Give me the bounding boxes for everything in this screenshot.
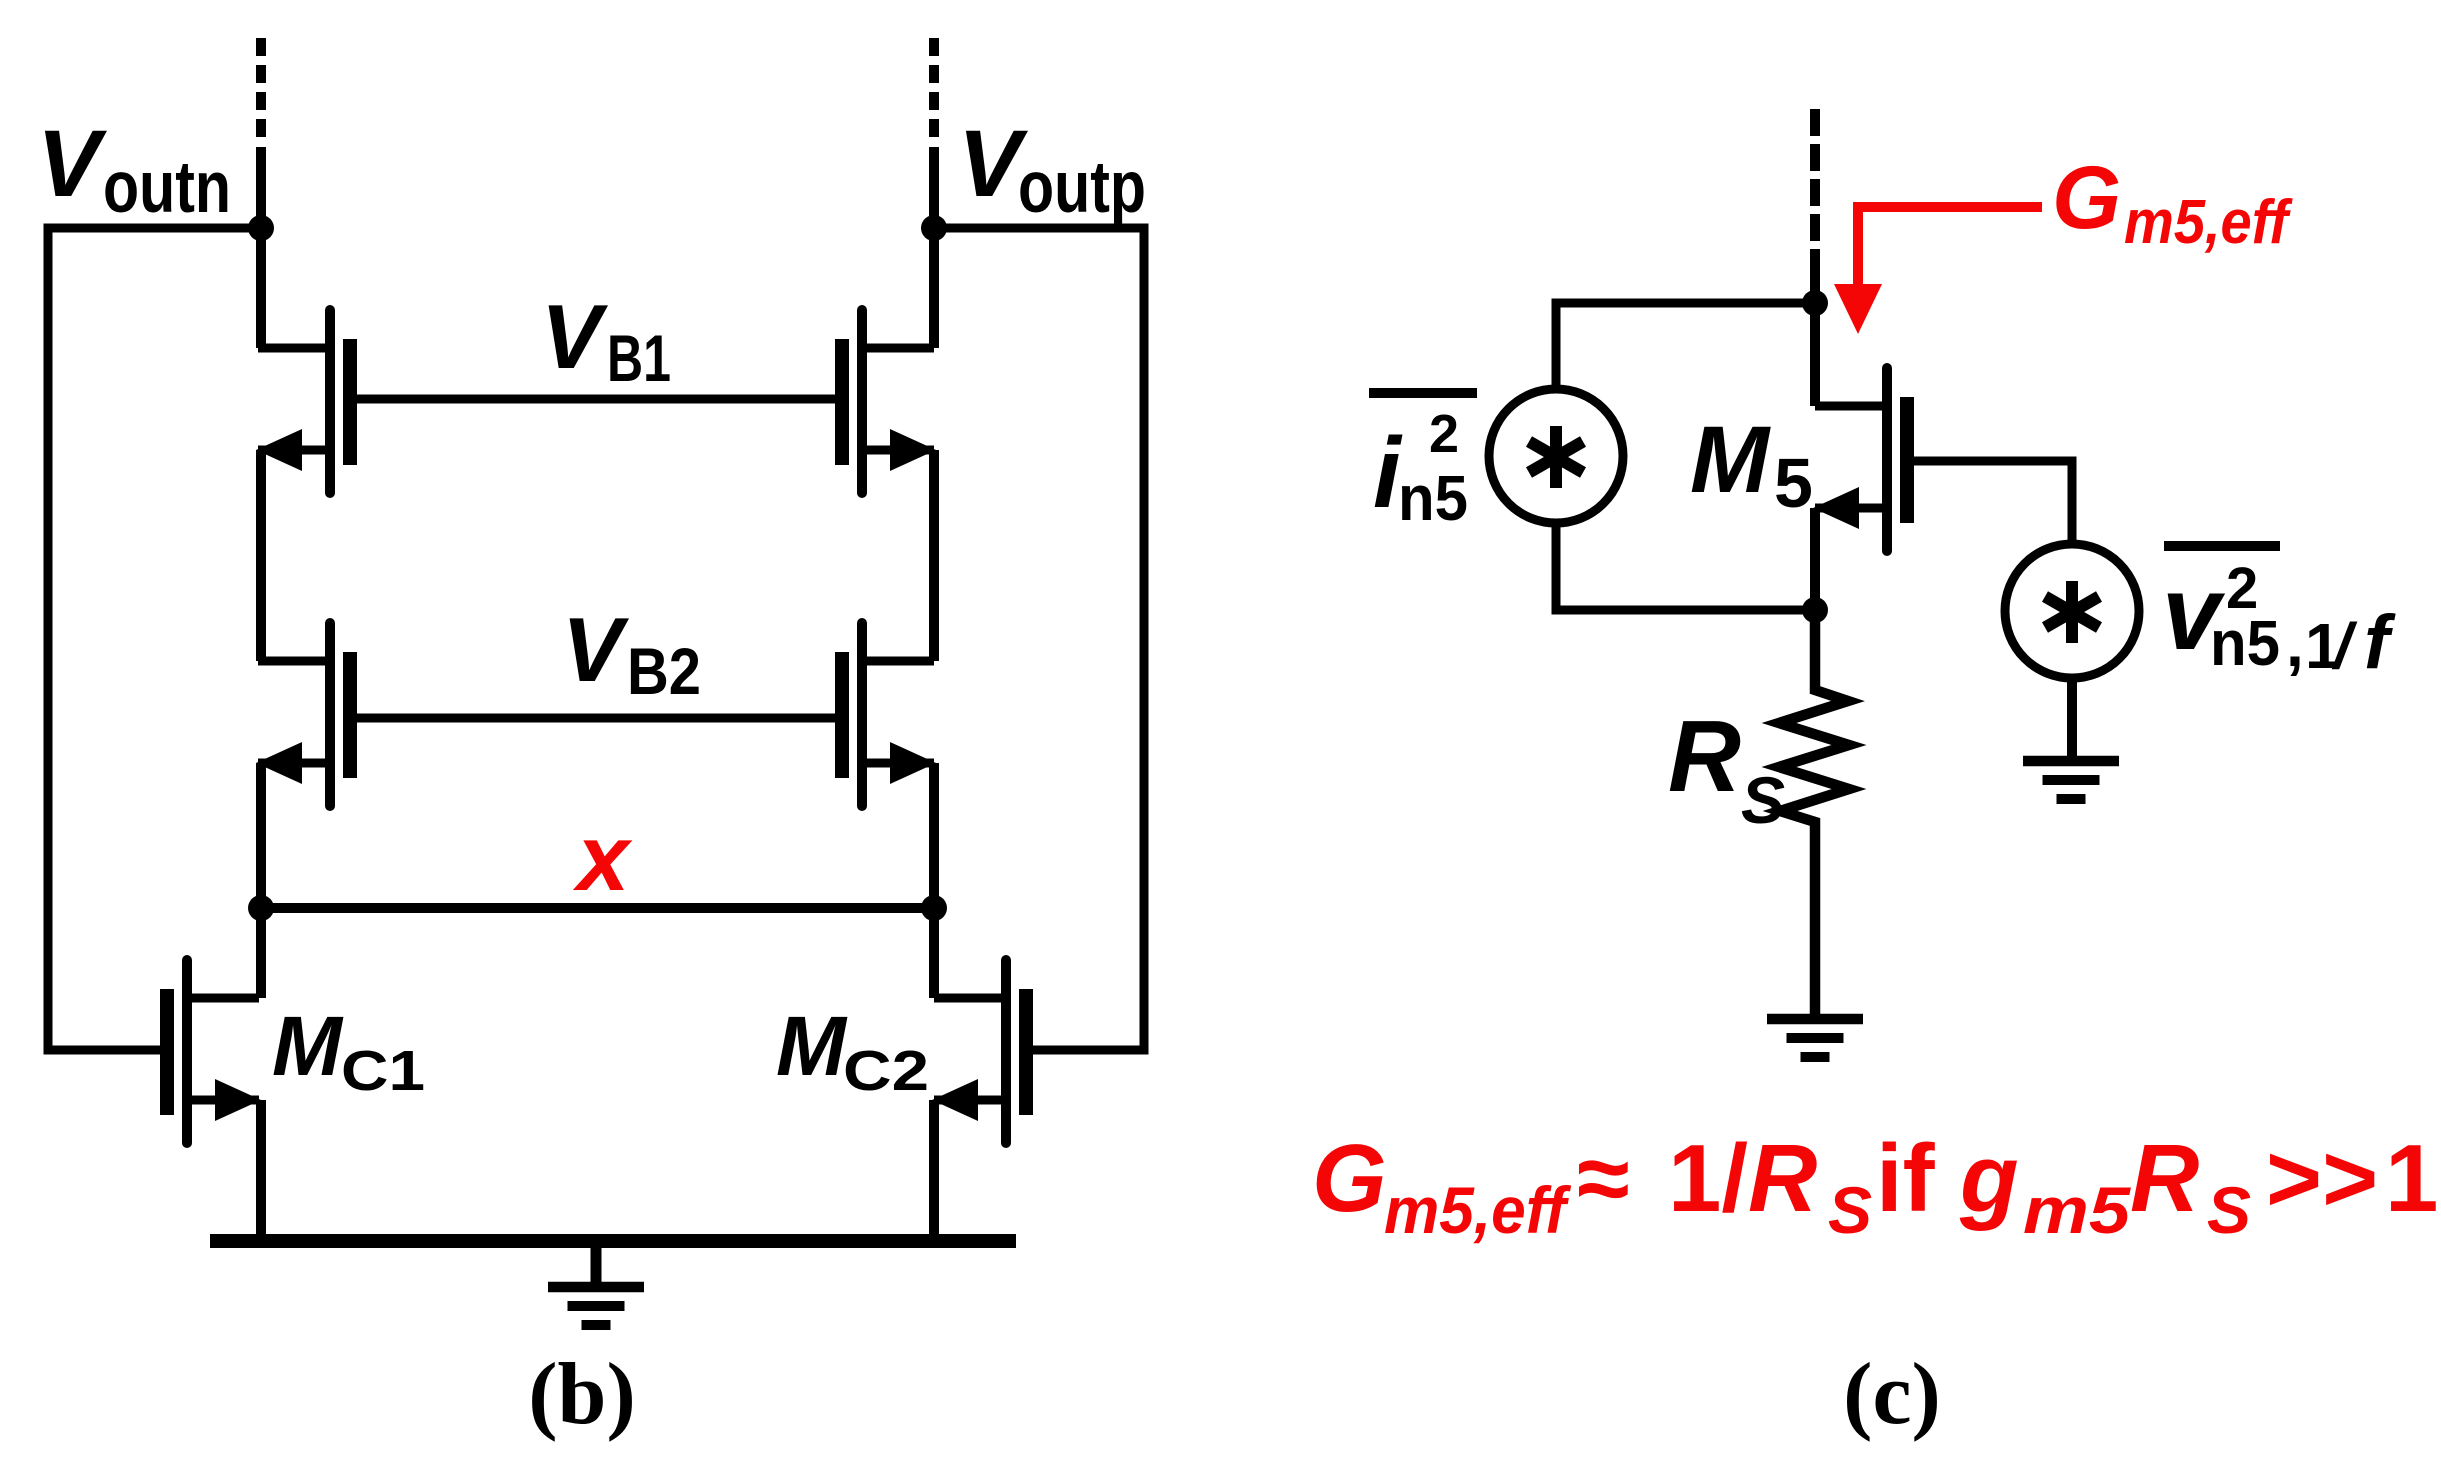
label red equation G_m5,eff approx 1/R_S if g_m5 R_S >> 1 bbox=[1312, 1125, 2438, 1247]
svg-text:R: R bbox=[1748, 1125, 1817, 1232]
svg-text:2: 2 bbox=[1429, 404, 1459, 464]
svg-text:g: g bbox=[1959, 1125, 2019, 1232]
wire: dashed supply stub above M5 drain bbox=[1810, 109, 1820, 250]
svg-text:1/: 1/ bbox=[1668, 1125, 1748, 1232]
svg-text:n5: n5 bbox=[1398, 462, 1468, 534]
red arrow G_m5,eff pointer bbox=[1834, 207, 2042, 334]
svg-text:outp: outp bbox=[1018, 147, 1146, 228]
svg-text:m5: m5 bbox=[2023, 1173, 2131, 1247]
wire: M5 drain node vertical bbox=[1810, 250, 1820, 406]
node X left junction dot bbox=[248, 895, 274, 921]
svg-text:C2: C2 bbox=[843, 1039, 929, 1103]
wire: M_C2 source to rail bbox=[929, 1100, 939, 1241]
transistor cascode PMOS right (V_B1 row) bbox=[835, 310, 936, 493]
svg-text:M: M bbox=[272, 999, 344, 1093]
svg-text:V: V bbox=[541, 287, 609, 388]
wire: v_n5 source to ground bbox=[2067, 678, 2077, 758]
svg-text:n5: n5 bbox=[2210, 607, 2280, 679]
transistor M5 bbox=[1813, 368, 1914, 551]
svg-text:(b): (b) bbox=[528, 1346, 636, 1443]
wire: V_outn feedback loop (left outer) bbox=[48, 228, 261, 1050]
svg-text:m5,eff: m5,eff bbox=[2124, 188, 2293, 257]
wire: dashed supply stub above V_outn bbox=[256, 38, 266, 146]
node V_outp junction dot bbox=[921, 215, 947, 241]
svg-text:G: G bbox=[1312, 1125, 1387, 1232]
svg-text:B2: B2 bbox=[627, 634, 701, 708]
label v_n5,1/f^2 with overline bbox=[2164, 541, 2280, 551]
svg-text:M: M bbox=[1690, 407, 1771, 513]
svg-text:R: R bbox=[2130, 1125, 2199, 1232]
transistor M_C1 bbox=[160, 960, 261, 1143]
node V_outn junction dot bbox=[248, 215, 274, 241]
wire: right T2 source down to node X bbox=[929, 763, 939, 998]
noise source asterisk bbox=[2045, 581, 2099, 643]
wire: dashed supply stub above V_outp bbox=[929, 38, 939, 146]
svg-text:C1: C1 bbox=[341, 1039, 425, 1103]
wire: V_outp node to right T1 drain bbox=[929, 147, 939, 348]
svg-text:S: S bbox=[2207, 1173, 2251, 1247]
resistor R_S bbox=[1779, 610, 1849, 1016]
transistor M_C2 bbox=[932, 960, 1033, 1143]
wire: bottom source rail bbox=[210, 1234, 1016, 1248]
wire: left T1 source to T2 drain bbox=[256, 450, 266, 661]
svg-text:G: G bbox=[2052, 147, 2121, 247]
svg-text:(c): (c) bbox=[1843, 1346, 1941, 1443]
wire: bottom link i_n5 to source node bbox=[1556, 521, 1815, 610]
transistor cascode PMOS right (V_B2 row) bbox=[835, 623, 936, 806]
svg-text:M: M bbox=[776, 999, 848, 1093]
svg-text:S: S bbox=[1828, 1173, 1872, 1247]
transistor cascode PMOS left (V_B1 row) bbox=[256, 310, 357, 493]
wire: gate net V_B1 bbox=[357, 395, 837, 404]
svg-text:V: V bbox=[37, 111, 107, 217]
svg-text:5: 5 bbox=[1774, 444, 1813, 522]
wire: V_outn node to T1 drain bbox=[256, 147, 266, 348]
svg-text:>>: >> bbox=[2266, 1125, 2378, 1232]
svg-text:B1: B1 bbox=[607, 321, 671, 395]
svg-text:1: 1 bbox=[2385, 1125, 2438, 1232]
node M5 drain junction dot bbox=[1802, 290, 1828, 316]
wire: left T2 source down to node X bbox=[256, 763, 266, 998]
wire: top link node to i_n5 source bbox=[1556, 303, 1815, 392]
node X right junction dot bbox=[921, 895, 947, 921]
svg-text:if: if bbox=[1876, 1125, 1936, 1232]
ground (b) bbox=[548, 1287, 644, 1325]
ground (c left, below R_S) bbox=[1767, 1019, 1863, 1057]
wire: V_outp feedback loop (right outer) bbox=[934, 228, 1144, 1050]
wire: M5 gate to v_n5 source bbox=[1914, 461, 2072, 546]
wire: M5 source to node above R_S bbox=[1810, 508, 1820, 610]
svg-text:x: x bbox=[572, 805, 633, 910]
wire: ground stem bbox=[591, 1241, 602, 1283]
svg-text:outn: outn bbox=[103, 147, 231, 228]
svg-text:≈: ≈ bbox=[1577, 1125, 1630, 1232]
transistor cascode PMOS left (V_B2 row) bbox=[256, 623, 357, 806]
wire: right T1 source to T2 drain bbox=[929, 450, 939, 661]
ground (c right) bbox=[2023, 761, 2119, 799]
svg-text:,: , bbox=[2286, 608, 2304, 680]
svg-text:m5,eff: m5,eff bbox=[1384, 1173, 1572, 1247]
wire: gate net V_B2 bbox=[357, 714, 837, 723]
wire: M_C1 source to rail bbox=[256, 1100, 266, 1241]
noise current source i_n5 circle bbox=[1489, 389, 1623, 523]
noise source asterisk bbox=[1529, 426, 1583, 488]
svg-text:V: V bbox=[562, 600, 630, 701]
wire: node X horizontal bbox=[261, 903, 934, 913]
node R_S top junction dot bbox=[1802, 597, 1828, 623]
label i_n5^2 with overline bbox=[1369, 388, 1477, 398]
noise voltage source v_n5,1/f circle bbox=[2005, 544, 2139, 678]
